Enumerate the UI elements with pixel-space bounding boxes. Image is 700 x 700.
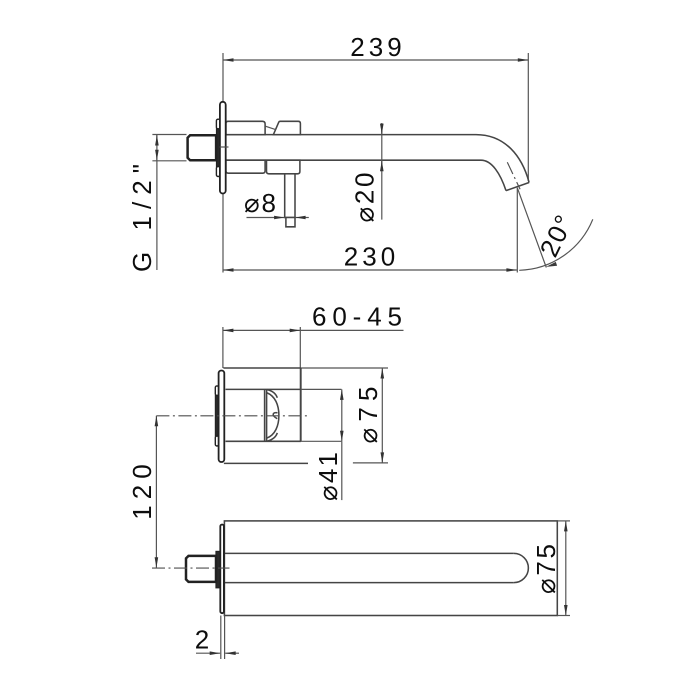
20 degree arc arrowhead bbox=[546, 262, 557, 267]
wall plate (view 1) bbox=[220, 102, 226, 194]
svg-text:239: 239 bbox=[350, 32, 402, 62]
dimension phi20 line bbox=[381, 123, 383, 220]
handle dome corner arc bottom bbox=[267, 433, 277, 441]
dimension 230 line bbox=[223, 269, 517, 271]
20 degree vertical reference line bbox=[516, 188, 518, 273]
lever handle bbox=[273, 121, 300, 134]
dimension 60-45 extension right bbox=[299, 327, 301, 441]
valve body bottom edge bbox=[224, 462, 308, 464]
svg-text:⌀8: ⌀8 bbox=[244, 188, 276, 218]
wall plate edge (view 3) bbox=[220, 525, 224, 614]
wall hardware tab bottom (view 1) bbox=[216, 167, 220, 177]
dimension 239 line bbox=[223, 59, 528, 61]
svg-text:⌀75: ⌀75 bbox=[531, 544, 561, 594]
wall hardware tab top (view 1) bbox=[216, 119, 220, 129]
valve body right face bbox=[300, 368, 302, 441]
spout slot bottom line bbox=[224, 582, 513, 584]
20 degree arc bbox=[519, 219, 593, 270]
svg-text:⌀20: ⌀20 bbox=[350, 173, 380, 223]
wall hardware tab bottom (view 2) bbox=[215, 436, 218, 446]
dimension 2 extension b bbox=[224, 616, 226, 660]
spout tip face bbox=[506, 183, 529, 191]
dimension 60-45 tail line bbox=[300, 329, 403, 331]
svg-text:⌀41: ⌀41 bbox=[313, 452, 343, 501]
wall hardware dark block (view 2) bbox=[215, 396, 218, 437]
dimension phi8 line right bbox=[295, 217, 309, 219]
phi41 top extension bbox=[301, 388, 342, 390]
cartridge sleeve lower left bbox=[226, 160, 265, 173]
phi41 bottom extension bbox=[301, 440, 342, 442]
dimension phi75 line (view 3) bbox=[565, 521, 567, 616]
spout tube top edge with curve bbox=[226, 135, 530, 183]
dimension phi8 line left bbox=[247, 217, 285, 219]
dimension 120 line bbox=[155, 416, 157, 568]
dimension 60-45 line bbox=[223, 329, 300, 331]
dimension G 1/2 arrow down bbox=[156, 154, 158, 160]
lever tip blob bbox=[273, 413, 277, 419]
svg-text:G 1/2": G 1/2" bbox=[127, 164, 157, 272]
dimension phi41 line bbox=[341, 389, 343, 441]
dimension phi75 ext top (view 3) bbox=[557, 520, 570, 522]
spout bar outline bbox=[224, 521, 557, 616]
dimension 2 extension a bbox=[220, 616, 222, 660]
valve sleeve top edge bbox=[226, 388, 301, 390]
handle dome left edge b bbox=[266, 389, 268, 441]
aerator stem tip bbox=[286, 218, 295, 227]
plate centerline tick bbox=[220, 146, 229, 148]
supply nipple G1/2 (view 3) bbox=[186, 556, 216, 582]
handle dome corner arc top bbox=[267, 390, 277, 398]
dimension 2 arrow right bbox=[225, 652, 239, 654]
svg-text:⌀75: ⌀75 bbox=[353, 387, 383, 444]
handle split line bbox=[265, 126, 275, 129]
dimension G 1/2 extension top bbox=[152, 134, 186, 136]
wall plate (view 2) bbox=[219, 371, 225, 463]
valve body top edge bbox=[223, 367, 301, 369]
svg-text:20°: 20° bbox=[534, 209, 580, 262]
svg-text:230: 230 bbox=[344, 242, 396, 272]
dimension G 1/2 arrow up bbox=[156, 135, 158, 142]
dimension 2 arrow left bbox=[196, 652, 220, 654]
handle dome arc bbox=[267, 393, 279, 439]
spout tip centerline bbox=[507, 162, 520, 189]
dimension 239 extension line left bbox=[222, 53, 224, 273]
body lower right piece bbox=[267, 160, 300, 174]
20 degree angled line bbox=[517, 188, 546, 268]
svg-text:120: 120 bbox=[127, 464, 157, 520]
dimension 60-45 extension left bbox=[222, 327, 224, 368]
dimension phi20 arrow top bbox=[381, 124, 383, 134]
dimension G 1/2 line bbox=[156, 135, 158, 271]
phi75 bottom extension bbox=[353, 462, 388, 464]
valve sleeve bottom edge bbox=[226, 440, 301, 442]
dimension phi20 arrow bottom bbox=[381, 161, 383, 171]
aerator stem bbox=[285, 174, 295, 218]
spout slot round end bbox=[514, 553, 529, 582]
dimension phi75 ext bottom (view 3) bbox=[557, 615, 570, 617]
handle dome left edge a bbox=[264, 389, 266, 441]
spout tube bottom edge with curve bbox=[226, 160, 507, 190]
wall hardware tab top (view 2) bbox=[215, 386, 218, 396]
wall hardware dark block (view 1) bbox=[216, 129, 220, 167]
dimension phi75 line (view 2) bbox=[381, 368, 383, 463]
dimension 239 extension line right bbox=[527, 53, 529, 181]
phi75 top extension bbox=[301, 367, 388, 369]
svg-text:2: 2 bbox=[195, 625, 209, 655]
spout slot top line bbox=[224, 552, 513, 554]
wall flange dark (view 3) bbox=[216, 551, 220, 588]
cartridge sleeve upper bbox=[226, 121, 265, 134]
dimension G 1/2 extension bottom bbox=[152, 160, 186, 162]
valve centerline bbox=[156, 415, 309, 417]
svg-text:60-45: 60-45 bbox=[312, 301, 402, 331]
dimension phi41 tail bbox=[341, 441, 343, 500]
supply nipple G1/2 (view 1) bbox=[188, 135, 217, 160]
spout centerline (view 3) bbox=[152, 567, 230, 569]
